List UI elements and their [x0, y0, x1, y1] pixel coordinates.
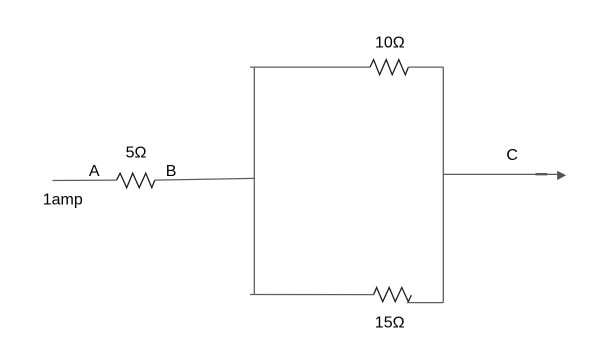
- resistor 10Ω: [370, 60, 408, 75]
- wire top branch right: [408, 66, 443, 68]
- arrowhead output: [557, 171, 566, 180]
- wire output thick overlap: [536, 173, 548, 175]
- wire bottom branch left: [250, 294, 374, 296]
- wire top branch left: [250, 66, 370, 68]
- svg-text:10Ω: 10Ω: [375, 34, 405, 51]
- wire input A-B segment left: [53, 179, 117, 181]
- svg-text:1amp: 1amp: [43, 192, 83, 209]
- svg-text:5Ω: 5Ω: [126, 145, 147, 162]
- resistor 5Ω: [117, 173, 155, 188]
- svg-text:B: B: [166, 163, 177, 180]
- svg-text:15Ω: 15Ω: [375, 314, 405, 331]
- wire left vertical bus: [253, 67, 255, 295]
- resistor 15Ω: [374, 288, 412, 302]
- wire output C: [443, 173, 557, 175]
- wire B to left vertical: [155, 178, 255, 180]
- wire right vertical bus: [442, 67, 444, 303]
- svg-text:C: C: [506, 147, 518, 164]
- svg-text:A: A: [89, 163, 100, 180]
- wire bottom branch right: [407, 302, 444, 304]
